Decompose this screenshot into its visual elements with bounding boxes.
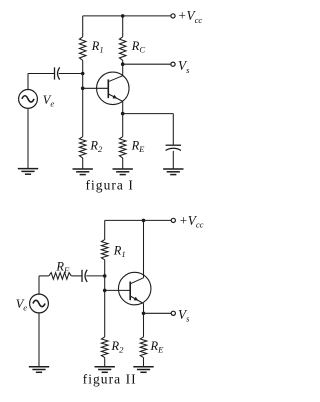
svg-text:RE: RE bbox=[131, 139, 146, 155]
wire R2 to ground (figura II) bbox=[104, 358, 106, 367]
resistor RC (figura I) bbox=[119, 37, 126, 61]
wire bypass branch down bbox=[172, 114, 174, 145]
wire Vs output (figura I) bbox=[123, 63, 171, 65]
svg-text:figura II: figura II bbox=[83, 372, 137, 387]
wire Vcc rail (figura II) bbox=[105, 219, 171, 221]
svg-text:+Vcc: +Vcc bbox=[178, 8, 203, 25]
wire capacitor to input junction (figura II) bbox=[86, 275, 104, 277]
ground below source (figura II) bbox=[29, 367, 49, 373]
ground below source (figura I) bbox=[18, 169, 38, 175]
capacitor CE bypass (figura I) bbox=[166, 145, 181, 150]
node input junction (figura II) bbox=[103, 274, 107, 278]
wire RE to ground (figura II) bbox=[143, 358, 145, 367]
resistor R2 (figura II) bbox=[101, 337, 108, 358]
wire RC to collector node bbox=[122, 60, 124, 64]
wire collector bbox=[122, 64, 124, 76]
svg-text:RF: RF bbox=[55, 259, 70, 275]
node emitter junction (figura II) bbox=[142, 312, 146, 316]
svg-text:R2: R2 bbox=[89, 139, 103, 155]
svg-text:Ve: Ve bbox=[43, 93, 55, 109]
wire rail to RC bbox=[122, 16, 124, 37]
wire base (figura I) bbox=[83, 87, 109, 89]
node base junction (figura II) bbox=[103, 289, 107, 293]
svg-text:RC: RC bbox=[131, 39, 146, 55]
wire source down to ground (figura II) bbox=[38, 313, 40, 367]
wire emitter bbox=[122, 101, 124, 113]
capacitor C1 coupling (figura I) bbox=[55, 67, 60, 79]
node emitter junction (figura I) bbox=[121, 112, 125, 116]
wire collector (figura II) bbox=[143, 220, 145, 277]
terminal +Vcc (figura II) bbox=[171, 218, 175, 222]
wire R1 to input junction bbox=[104, 260, 106, 276]
wire input junction to base junction (figura II) bbox=[104, 276, 106, 291]
node rail junction (figura II) bbox=[142, 219, 146, 223]
node rail junction (figura I) bbox=[121, 14, 125, 18]
resistor RE (figura II) bbox=[140, 337, 147, 358]
wire input to RF bbox=[39, 275, 49, 277]
wire emitter (figura II) bbox=[143, 304, 145, 314]
terminal Vs (figura I) bbox=[171, 62, 175, 66]
node base junction (figura I) bbox=[81, 87, 85, 91]
wire input junction to base junction bbox=[82, 74, 84, 89]
wire emitter node to RE bbox=[122, 114, 124, 137]
svg-text:Vs: Vs bbox=[178, 58, 190, 75]
ground below R2 (figura II) bbox=[95, 367, 115, 373]
svg-text:R1: R1 bbox=[91, 39, 104, 55]
ground below R2 (figura I) bbox=[73, 169, 93, 175]
transistor Q1 bbox=[97, 72, 130, 105]
wire R2 to ground bbox=[82, 158, 84, 169]
node input junction (figura I) bbox=[81, 72, 85, 76]
ground below bypass capacitor bbox=[163, 169, 183, 175]
capacitor C2 coupling (figura II) bbox=[82, 270, 87, 282]
terminal +Vcc (figura I) bbox=[171, 14, 175, 18]
svg-text:figura I: figura I bbox=[85, 177, 134, 192]
svg-text:RE: RE bbox=[150, 339, 165, 355]
wire source up (figura II) bbox=[38, 276, 40, 294]
wire emitter node to bypass branch bbox=[123, 113, 174, 115]
wire base (figura II) bbox=[105, 289, 131, 291]
resistor RE (figura I) bbox=[119, 137, 126, 158]
resistor R1 (figura II) bbox=[101, 240, 108, 260]
ground below RE (figura I) bbox=[113, 169, 133, 175]
wire RE to ground bbox=[122, 158, 124, 169]
resistor R1 (figura I) bbox=[79, 37, 86, 61]
wire rail to R1 bbox=[82, 16, 84, 37]
svg-text:Vs: Vs bbox=[178, 307, 190, 324]
node collector junction (figura I) bbox=[121, 62, 125, 66]
terminal Vs (figura II) bbox=[171, 311, 175, 315]
source Ve (figura II) bbox=[30, 294, 49, 313]
resistor R2 (figura I) bbox=[79, 137, 86, 158]
wire source up to input bbox=[27, 74, 29, 90]
svg-text:+Vcc: +Vcc bbox=[179, 213, 204, 230]
svg-text:R2: R2 bbox=[111, 339, 125, 355]
wire rail to R1 (figura II) bbox=[104, 220, 106, 239]
source Ve (figura I) bbox=[19, 90, 38, 109]
wire Vs output (figura II) bbox=[144, 312, 172, 314]
resistor RF (figura II) bbox=[49, 273, 71, 280]
transistor Q2 bbox=[118, 272, 151, 305]
wire emitter node to RE (figura II) bbox=[143, 313, 145, 337]
wire Vcc rail (figura I) bbox=[83, 15, 171, 17]
wire source down to ground bbox=[27, 108, 29, 168]
wire base junction to R2 bbox=[82, 88, 84, 136]
wire bypass cap to ground bbox=[172, 151, 174, 169]
wire R1 to base node bbox=[82, 60, 84, 73]
ground below RE (figura II) bbox=[133, 367, 153, 373]
wire base junction to R2 (figura II) bbox=[104, 290, 106, 337]
wire capacitor to input junction bbox=[59, 73, 83, 75]
wire input to capacitor bbox=[28, 73, 55, 75]
svg-text:R1: R1 bbox=[113, 244, 126, 260]
svg-text:Ve: Ve bbox=[16, 297, 28, 313]
wire RF to capacitor bbox=[71, 275, 82, 277]
